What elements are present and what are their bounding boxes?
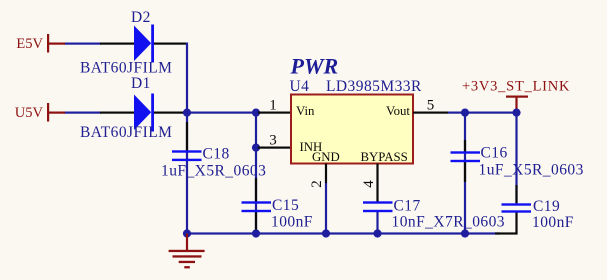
svg-text:D1: D1 <box>131 75 151 92</box>
wire D1 pin anode (black) <box>100 112 135 114</box>
wire node to pin1 junction (blue) <box>187 112 256 114</box>
port E5V <box>16 34 65 53</box>
svg-text:1uF_X5R_0603: 1uF_X5R_0603 <box>161 163 266 180</box>
wire C18 top pin (black) <box>186 122 188 151</box>
wire vertical v2 pin1 junction down through C15 to rail <box>255 112 257 235</box>
wire pin3 stub (black) <box>258 147 291 149</box>
node pin1 junction <box>252 109 260 117</box>
power port +3V3_ST_LINK <box>462 79 570 114</box>
svg-text:3: 3 <box>269 133 277 149</box>
wire pin5 to power node (blue) <box>448 112 518 114</box>
capacitor C19 <box>502 203 532 212</box>
svg-text:BYPASS: BYPASS <box>361 150 408 164</box>
capacitor C16 <box>451 151 481 162</box>
svg-text:5: 5 <box>427 98 435 114</box>
wire pin1 stub (black) <box>258 112 291 114</box>
node rail at v1 <box>183 229 191 237</box>
svg-text:E5V: E5V <box>16 36 43 52</box>
node rail at C15 <box>252 229 260 237</box>
wire pin4 BYPASS stub (black) <box>376 164 378 202</box>
wire pin2 GND stub (black) <box>325 164 327 184</box>
svg-text:4: 4 <box>361 180 377 188</box>
svg-text:1: 1 <box>269 98 277 114</box>
svg-text:C15: C15 <box>272 197 299 214</box>
capacitor C17 <box>363 201 393 212</box>
ground symbol <box>169 234 205 269</box>
wire vertical v6 power node down through C19 <box>515 112 517 204</box>
diode D1 <box>134 94 154 132</box>
wire vertical v1 from D2 corner down to ground rail <box>186 43 188 235</box>
node C16 top junction <box>461 109 469 117</box>
node rail at C17 <box>373 229 381 237</box>
wire D2 pin anode (black) <box>100 43 135 45</box>
svg-text:BAT60JFILM: BAT60JFILM <box>80 124 172 141</box>
svg-text:Vout: Vout <box>386 104 410 118</box>
capacitor C18 <box>172 150 202 161</box>
svg-text:100nF: 100nF <box>271 214 313 231</box>
wire D1 cathode to node (black) <box>152 112 188 114</box>
svg-text:Vin: Vin <box>296 104 315 118</box>
node junction D1/D2 <box>183 109 191 117</box>
svg-text:U4: U4 <box>290 78 310 95</box>
svg-text:GND: GND <box>312 150 340 164</box>
wire U5V to D1 (blue) <box>65 112 101 114</box>
port U5V <box>15 103 66 122</box>
svg-text:U5V: U5V <box>15 105 44 121</box>
wire pin4 below C17 to rail (blue) <box>376 212 378 235</box>
node rail at pin2 <box>322 229 330 237</box>
wire C16 top pin (black) <box>464 140 466 152</box>
wire D2 cathode to corner (black) <box>152 43 188 45</box>
wire pin2 to rail (blue) <box>325 183 327 235</box>
svg-text:PWR: PWR <box>290 54 339 79</box>
wire C19 top pin (black) <box>515 185 517 203</box>
wire pin5 Vout stub (black) <box>413 112 448 114</box>
svg-text:100nF: 100nF <box>532 214 574 231</box>
node rail at C16 <box>461 229 469 237</box>
capacitor C15 <box>242 201 272 212</box>
svg-text:1uF_X5R_0603: 1uF_X5R_0603 <box>479 162 584 179</box>
svg-text:C16: C16 <box>481 145 508 162</box>
svg-text:LD3985M33R: LD3985M33R <box>326 78 422 95</box>
wire ground rail right end (black) <box>495 232 518 234</box>
wire C16 bottom pin (black) <box>464 162 466 182</box>
wire vertical v5 C16 branch <box>464 112 466 235</box>
wire C15 bottom pin (black) <box>255 212 257 234</box>
wire C15 top pin (black) <box>255 178 257 202</box>
op-amp U4 regulator body <box>291 95 413 164</box>
wire E5V to D2 (blue) <box>65 43 101 45</box>
node pin3 junction <box>252 144 260 152</box>
svg-text:D2: D2 <box>131 9 151 26</box>
svg-text:10nF_X7R_0603: 10nF_X7R_0603 <box>392 214 506 231</box>
svg-text:C18: C18 <box>203 146 230 163</box>
wire ground rail (blue) <box>186 232 500 234</box>
svg-text:BAT60JFILM: BAT60JFILM <box>80 60 172 77</box>
wire C19 bottom pin (black) <box>515 212 517 235</box>
svg-text:+3V3_ST_LINK: +3V3_ST_LINK <box>462 79 570 95</box>
node power junction <box>512 109 520 117</box>
svg-text:C19: C19 <box>533 198 560 215</box>
svg-text:C17: C17 <box>394 198 421 215</box>
diode D2 <box>134 25 154 63</box>
svg-text:2: 2 <box>309 180 325 188</box>
